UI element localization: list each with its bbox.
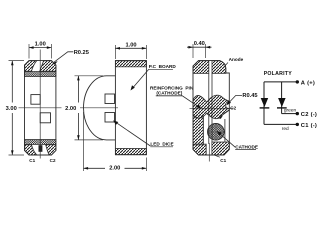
front view lower electrode window bbox=[40, 113, 50, 123]
front view top-left hatched wing bbox=[25, 61, 37, 72]
front view vertical centerline bbox=[39, 50, 41, 159]
side view pcb body bbox=[115, 61, 146, 155]
svg-text:1.00: 1.00 bbox=[35, 42, 46, 48]
svg-text:LED DICE: LED DICE bbox=[150, 142, 173, 147]
dimension 2.00 (side view depth) bbox=[84, 112, 147, 171]
wire left branch bbox=[263, 82, 265, 125]
svg-text:1.00: 1.00 bbox=[125, 42, 136, 48]
node A dot bbox=[296, 80, 299, 83]
svg-text:Anode: Anode bbox=[229, 57, 244, 62]
side view lower lead window (led dice) bbox=[105, 113, 115, 123]
svg-text:A (+): A (+) bbox=[301, 80, 315, 86]
wire C2 green bbox=[282, 113, 296, 115]
svg-text:3.00: 3.00 bbox=[6, 106, 17, 112]
dimension 1.00 (front view width) bbox=[29, 44, 51, 59]
side view bottom hatched pad bbox=[115, 149, 146, 155]
wire C1 red bottom bbox=[264, 123, 296, 125]
edge view horizontal centerline bbox=[190, 107, 234, 109]
dimension 0.40 (pcb thickness) bbox=[193, 44, 206, 58]
edge view reinforcing pin circle bbox=[208, 124, 225, 141]
side view epoxy dome bbox=[84, 76, 116, 140]
edge view package outline bbox=[193, 61, 229, 155]
dimension 3.00 (front view height) bbox=[9, 61, 25, 155]
front view bottom-left hatched wing bbox=[25, 145, 37, 156]
svg-text:P.C BOARD: P.C BOARD bbox=[149, 64, 177, 69]
side view horizontal centerline bbox=[80, 107, 118, 109]
front view reinforcing pin mark bbox=[39, 145, 43, 152]
svg-text:POLARITY: POLARITY bbox=[264, 71, 293, 77]
diode D2 green (right) bbox=[278, 98, 286, 107]
front view top-right hatched wing (R0.25 corner) bbox=[40, 61, 56, 72]
svg-text:0.40: 0.40 bbox=[194, 41, 205, 47]
dimension 2.00 (dome height) bbox=[75, 76, 104, 140]
svg-text:C1: C1 bbox=[220, 158, 226, 163]
svg-text:C2: C2 bbox=[50, 158, 56, 163]
svg-text:R0.25: R0.25 bbox=[74, 50, 89, 56]
front view bottom-right hatched wing bbox=[46, 145, 56, 156]
dimension 1.00 (side view width) bbox=[115, 45, 146, 59]
svg-text:CATHODE: CATHODE bbox=[235, 144, 258, 149]
svg-text:2.00: 2.00 bbox=[65, 106, 76, 112]
front view top checkered electrode band bbox=[25, 72, 56, 77]
edge view middle electrode butterfly bbox=[193, 95, 229, 118]
svg-text:C1 (-): C1 (-) bbox=[301, 123, 317, 129]
side view upper lead window bbox=[105, 94, 115, 104]
svg-text:2.00: 2.00 bbox=[109, 166, 120, 172]
edge view top-left hatched block bbox=[193, 61, 209, 74]
node C1 dot bbox=[296, 123, 299, 126]
wire anode top bbox=[264, 81, 296, 83]
diode D1 red (left) bbox=[261, 98, 269, 107]
svg-text:green: green bbox=[284, 107, 297, 113]
svg-text:red: red bbox=[282, 126, 289, 132]
svg-text:C2: C2 bbox=[230, 105, 236, 110]
svg-text:C1: C1 bbox=[29, 158, 35, 163]
side view top hatched pad bbox=[115, 61, 146, 67]
edge view left electrode column bbox=[193, 113, 203, 146]
edge view bottom-left hatched block bbox=[193, 144, 206, 155]
front view upper electrode window bbox=[31, 95, 40, 105]
edge view slot lines bbox=[209, 73, 225, 144]
svg-text:(CATHODE): (CATHODE) bbox=[156, 91, 182, 96]
edge view top-right hatched block bbox=[212, 61, 226, 74]
edge view bottom-right hatched block bbox=[212, 142, 229, 155]
edge view vertical centerline stub bbox=[208, 143, 210, 162]
svg-text:R0.45: R0.45 bbox=[242, 93, 257, 99]
front view horizontal centerline bbox=[19, 107, 62, 109]
wire right branch bbox=[281, 82, 283, 114]
front view bottom checkered electrode band bbox=[25, 139, 56, 144]
node C2 dot bbox=[296, 112, 299, 115]
svg-text:C2 (-): C2 (-) bbox=[301, 112, 317, 118]
front view package outline bbox=[25, 61, 56, 155]
